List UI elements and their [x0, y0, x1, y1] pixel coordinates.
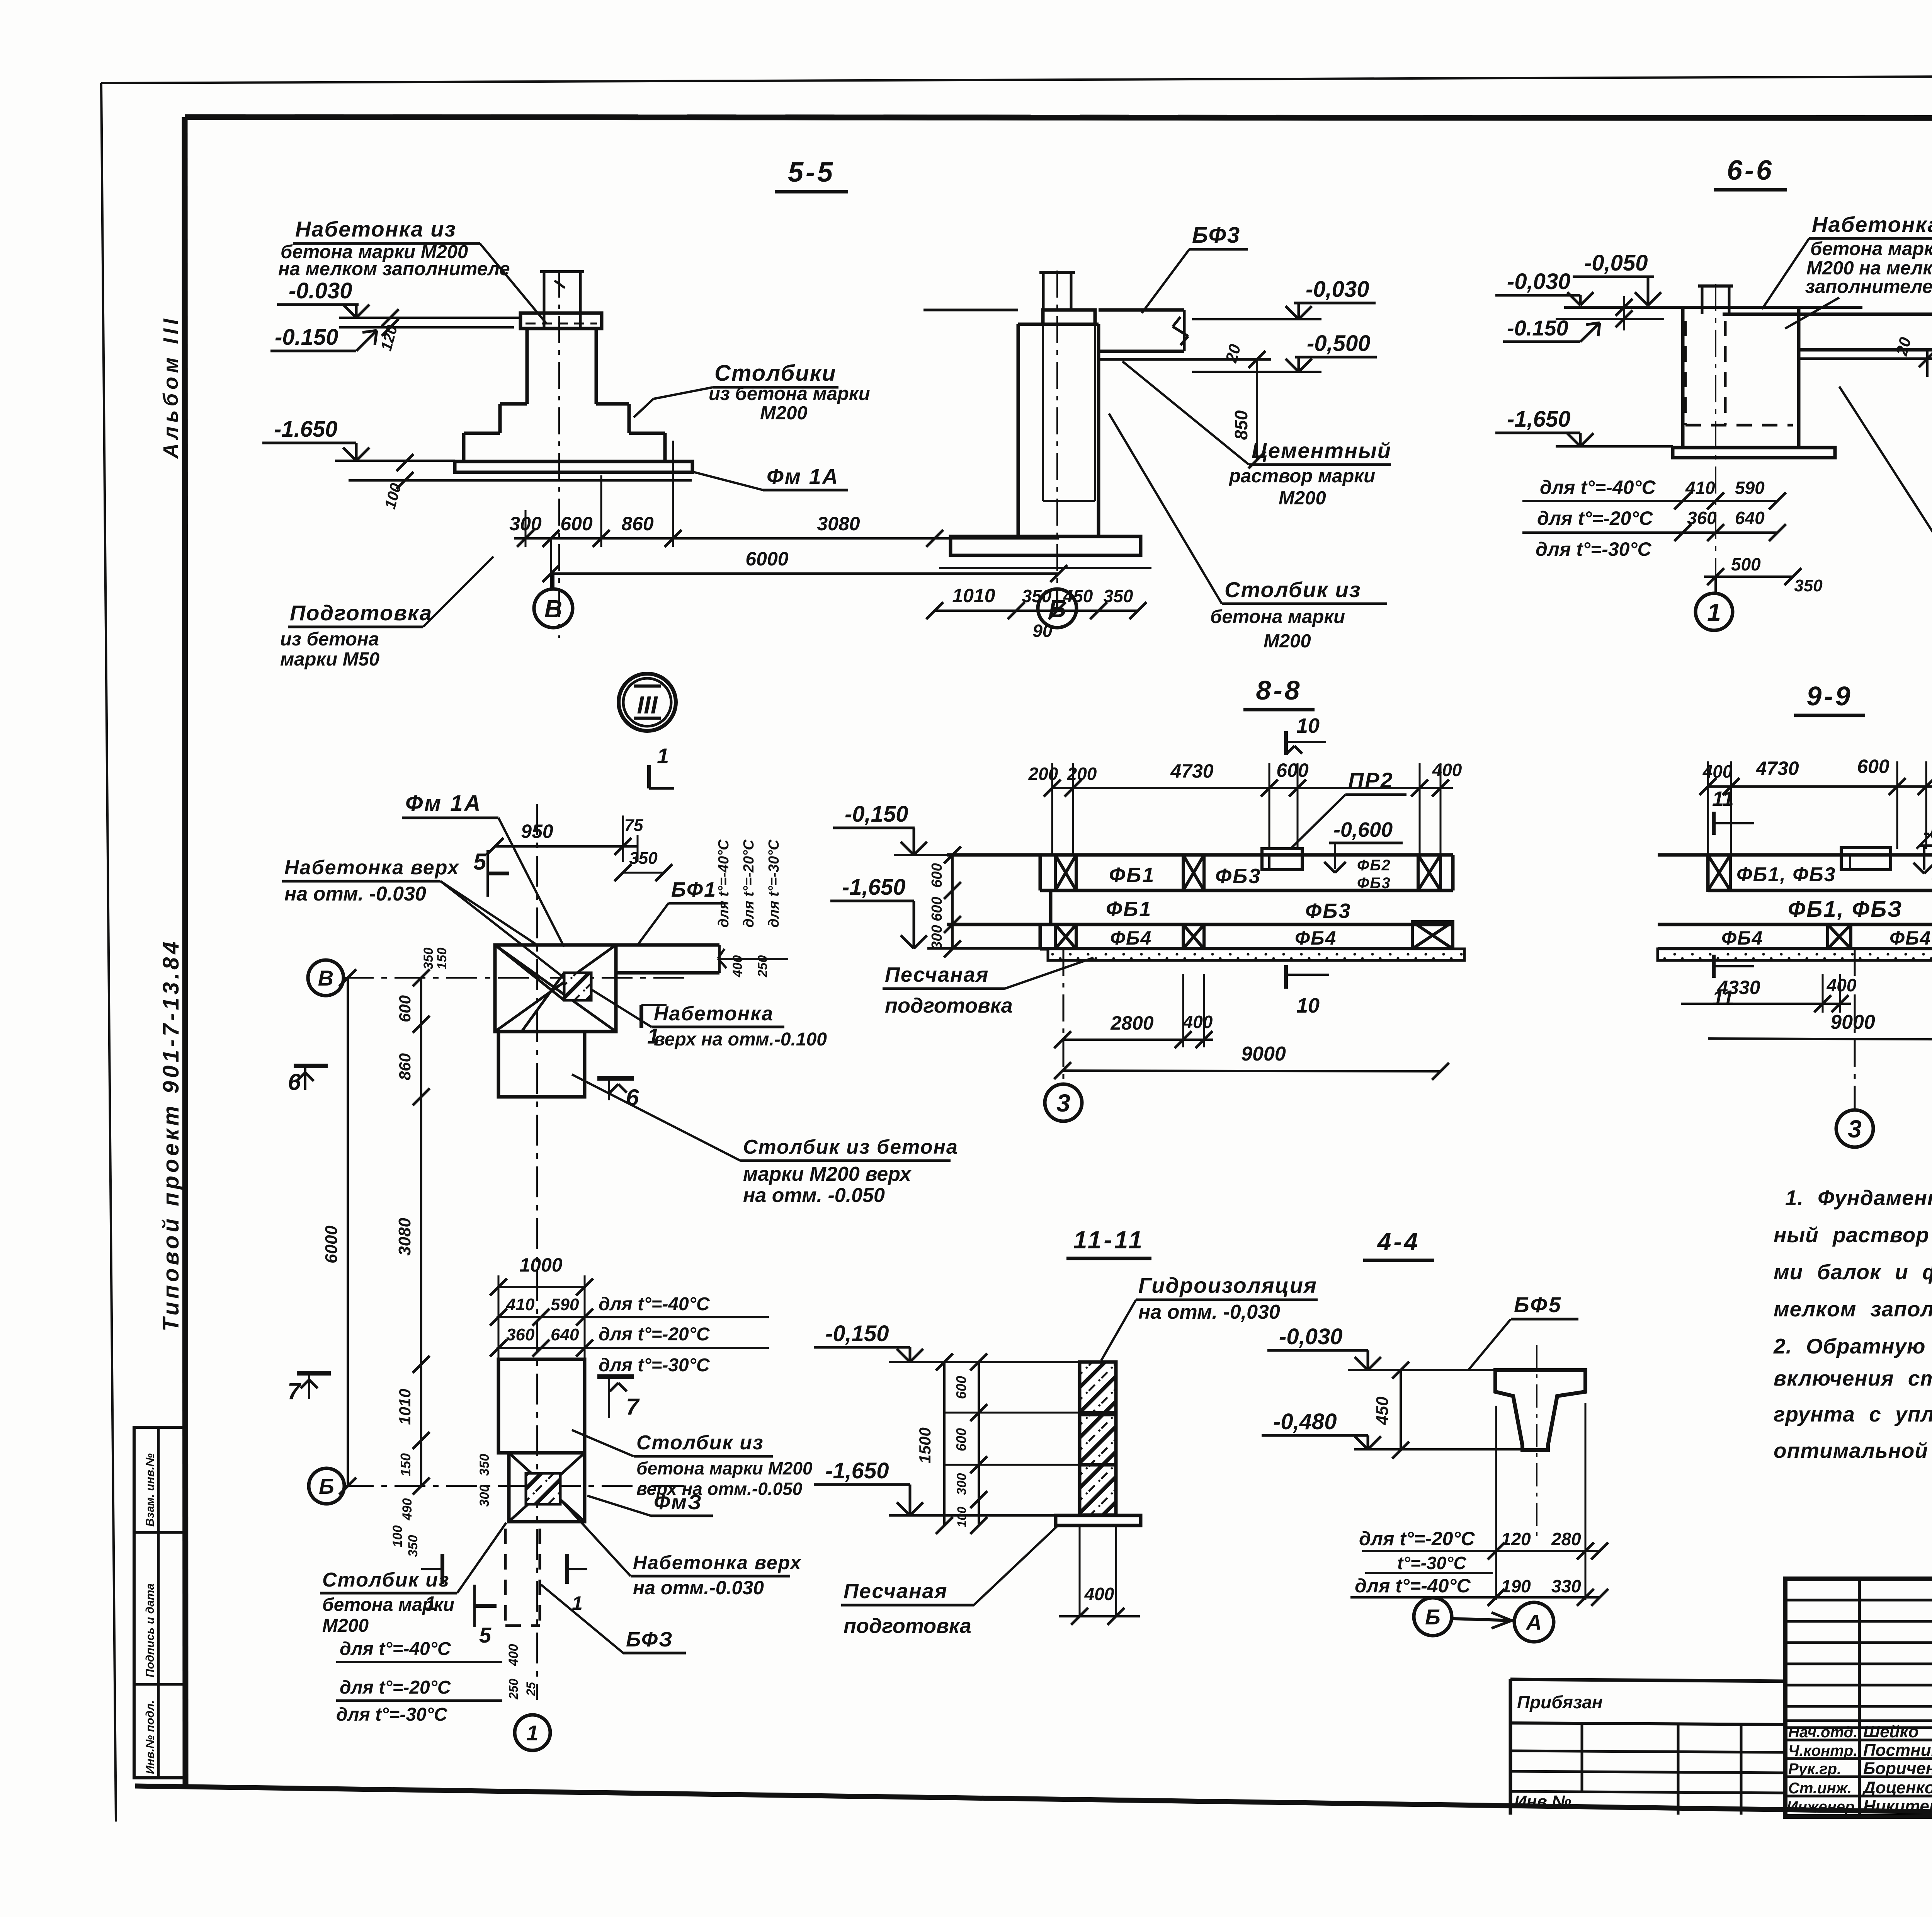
svg-text:Цементный: Цементный: [1252, 438, 1391, 463]
svg-text:ФБ3: ФБ3: [1357, 875, 1391, 892]
svg-text:Фм 1А: Фм 1А: [767, 464, 839, 489]
5-5 axis Б centerline: [1056, 271, 1058, 603]
label Фм 1А (plan): [402, 791, 564, 947]
svg-text:для t°=-40°C: для t°=-40°C: [716, 839, 732, 928]
svg-text:ФБ1, ФБЗ: ФБ1, ФБЗ: [1788, 897, 1903, 922]
svg-text:-0,030: -0,030: [1507, 269, 1570, 294]
title block signatures column: [1787, 1722, 1932, 1816]
svg-text:590: 590: [1735, 478, 1765, 498]
level -0.600 (9-9): [1913, 821, 1932, 873]
9-9 beam strip row 3: [1658, 924, 1932, 960]
svg-text:ФБ2: ФБ2: [1357, 857, 1391, 874]
svg-text:150: 150: [398, 1453, 413, 1476]
5-5 dimension 6000: [543, 538, 1067, 589]
svg-text:330: 330: [1551, 1576, 1581, 1596]
svg-text:Рук.гр.: Рук.гр.: [1788, 1760, 1841, 1777]
svg-text:600: 600: [396, 995, 414, 1022]
svg-text:В: В: [318, 966, 333, 990]
level -0.030 (5-5): [277, 278, 522, 318]
11-11 dim 400: [1059, 1584, 1140, 1625]
svg-text:Ч.контр.: Ч.контр.: [1788, 1742, 1857, 1759]
svg-text:ФБ1: ФБ1: [1106, 897, 1152, 921]
svg-text:А: А: [1526, 1610, 1542, 1634]
svg-text:1500: 1500: [916, 1427, 934, 1463]
svg-text:для t°=-40°C: для t°=-40°C: [599, 1294, 710, 1314]
svg-text:3: 3: [1848, 1115, 1862, 1143]
svg-text:600: 600: [560, 513, 593, 535]
section title 8-8: [1243, 675, 1315, 710]
plan: nabetonka hatched square (upper): [564, 973, 591, 1000]
section title 9-9: [1794, 681, 1865, 715]
svg-text:400: 400: [506, 1644, 521, 1667]
level -0.030 (4-4): [1267, 1324, 1495, 1370]
level -1.650 (6-6): [1495, 407, 1673, 446]
svg-text:t°=-30°C: t°=-30°C: [1397, 1553, 1466, 1573]
ПР2 box on strip (9-9): [1841, 848, 1891, 870]
svg-text:БФ3: БФ3: [1192, 223, 1241, 248]
6-6 column: [1683, 307, 1799, 448]
5-5 Б anchor bolts: [1039, 272, 1075, 310]
label БФЗ (plan): [541, 1585, 686, 1653]
svg-text:10: 10: [1296, 714, 1320, 737]
svg-text:400: 400: [1183, 1012, 1213, 1032]
label: Столбики из бетона марки М200 (5-5): [634, 361, 870, 424]
svg-text:подготовка: подготовка: [844, 1614, 971, 1638]
11-11 extension lines below: [1080, 1525, 1116, 1616]
9-9 beam strip row 1: [1658, 855, 1932, 890]
notes paragraph: [1773, 1186, 1932, 1462]
svg-text:Столбик из: Столбик из: [1225, 577, 1361, 602]
svg-text:250: 250: [507, 1679, 520, 1700]
svg-text:2800: 2800: [1110, 1012, 1153, 1034]
6-6 anchor bolts: [1698, 286, 1733, 314]
svg-text:для t°=-20°C: для t°=-20°C: [1537, 507, 1653, 529]
label: Столбик из бетона марки М200 (plan left): [320, 1523, 506, 1636]
svg-text:450: 450: [1063, 586, 1093, 606]
svg-text:верх на отм.-0.100: верх на отм.-0.100: [654, 1029, 827, 1050]
floor line left of Б column: [923, 309, 1018, 312]
svg-text:9-9: 9-9: [1806, 681, 1852, 711]
9-9 beam strip row 2: [1658, 897, 1932, 924]
5-5 anchor bolts: [540, 272, 584, 328]
section mark 7 left: [287, 1373, 331, 1404]
svg-text:ФБ3: ФБ3: [1215, 865, 1261, 888]
svg-text:300: 300: [954, 1473, 969, 1495]
8-8 sand base strip: [1048, 949, 1464, 960]
svg-text:на отм. -0.050: на отм. -0.050: [743, 1184, 885, 1207]
title block grid: [1785, 1579, 1932, 1817]
plan left dim chain (В to Б): [322, 948, 449, 1495]
svg-text:марки М200 верх: марки М200 верх: [743, 1163, 912, 1185]
label БФ1: [638, 878, 726, 945]
svg-text:-0.150: -0.150: [275, 325, 338, 350]
dim 100 rotated (5-5): [382, 454, 413, 511]
svg-text:Столбик из: Столбик из: [636, 1432, 764, 1454]
svg-text:300: 300: [929, 925, 945, 949]
ПР2 box on strip (8-8): [1262, 849, 1302, 870]
label: Песчаная подготовка (8-8): [883, 958, 1094, 1017]
svg-text:6: 6: [288, 1069, 301, 1095]
label БФ5: [1468, 1292, 1578, 1370]
11-11 wall hatched: [1080, 1362, 1116, 1515]
plan axis В line: [343, 977, 692, 979]
svg-text:1010: 1010: [952, 585, 995, 606]
svg-text:ФБ1: ФБ1: [1109, 863, 1155, 887]
axis circle 3 (8-8): [1045, 949, 1082, 1121]
svg-text:100: 100: [955, 1507, 969, 1527]
svg-text:1: 1: [526, 1721, 538, 1745]
svg-text:Набетонка из: Набетонка из: [1812, 212, 1932, 237]
svg-text:Б: Б: [1048, 595, 1066, 623]
svg-text:400: 400: [1084, 1584, 1114, 1604]
svg-text:Постников: Постников: [1863, 1741, 1932, 1760]
section marks 1 lower pair: [421, 1554, 587, 1614]
svg-text:бетона марки: бетона марки: [1810, 238, 1932, 259]
5-5 dimension chain 300/600/860/3080: [509, 441, 1059, 547]
svg-text:350: 350: [421, 948, 436, 970]
svg-text:-0,030: -0,030: [1306, 277, 1369, 302]
svg-text:200: 200: [1028, 764, 1058, 784]
dim 20 rotated (5-5 Б): [1222, 342, 1265, 368]
svg-text:БФ5: БФ5: [1514, 1292, 1562, 1317]
svg-text:Подготовка: Подготовка: [290, 601, 432, 625]
8-8 beam strip row 2: [947, 890, 1453, 924]
dim 20 rotated (6-6): [1892, 335, 1932, 377]
label ПР2 (8-8): [1291, 768, 1406, 849]
section title 5-5: [775, 157, 848, 192]
svg-text:М200: М200: [760, 403, 808, 424]
svg-text:для t°=-20°C: для t°=-20°C: [741, 839, 757, 928]
svg-text:Столбики: Столбики: [714, 361, 837, 386]
svg-text:9000: 9000: [1830, 1011, 1875, 1033]
8-8 bottom dims 2800/400: [1054, 974, 1213, 1048]
plan: lower column rect: [498, 1359, 585, 1453]
section mark 11 bottom (9-9): [1712, 955, 1754, 1010]
svg-text:для t°=-20°C: для t°=-20°C: [599, 1324, 710, 1345]
svg-text:ФмЗ: ФмЗ: [654, 1491, 702, 1514]
8-8 dim 9000: [1054, 1043, 1449, 1080]
svg-text:2. Обратную засыпку пазух п: 2. Обратную засыпку пазух производить гр…: [1773, 1334, 1932, 1358]
axis circle В (plan): [308, 960, 344, 996]
svg-text:М200: М200: [322, 1616, 369, 1636]
svg-text:1. Фундаментные балки уклады: 1. Фундаментные балки укладывать на цеме…: [1785, 1186, 1932, 1210]
level -1.650 (8-8): [830, 875, 1048, 948]
dim 120 ticks (6-6): [1616, 296, 1633, 330]
6-6 floor line: [1564, 306, 1862, 309]
label: Набетонка из бетона марки М200 на мелком заполнителе (6-6): [1762, 212, 1932, 329]
svg-text:для t°=-40°C: для t°=-40°C: [1540, 477, 1656, 498]
4-4 beam БФ5 cross-section: [1495, 1370, 1585, 1450]
svg-text:грунта с уплотнением слоями: грунта с уплотнением слоями не более 200…: [1774, 1402, 1932, 1426]
svg-text:150: 150: [435, 948, 449, 970]
svg-text:600: 600: [953, 1428, 969, 1451]
svg-text:90: 90: [1032, 621, 1053, 641]
svg-text:-0,480: -0,480: [1273, 1409, 1337, 1434]
section mark 11 top (9-9): [1712, 787, 1754, 835]
svg-text:ФБ1, ФБ3: ФБ1, ФБ3: [1736, 863, 1836, 886]
svg-text:Бориченко: Бориченко: [1863, 1759, 1932, 1778]
svg-text:на отм.-0.030: на отм.-0.030: [633, 1577, 764, 1599]
svg-text:оптимальной влажности до γс: оптимальной влажности до γск ≥ 1,65 т/м³…: [1774, 1439, 1932, 1462]
svg-text:350: 350: [406, 1535, 420, 1557]
svg-text:Б: Б: [319, 1474, 334, 1498]
svg-text:из бетона марки: из бетона марки: [709, 383, 870, 404]
svg-text:III: III: [637, 691, 658, 719]
label: Набетонка верх на отм.-0.030 (plan upper): [282, 856, 564, 978]
section mark 1 (lower near beam): [641, 1005, 667, 1048]
svg-text:4-4: 4-4: [1377, 1228, 1420, 1256]
level -1.650 (5-5): [262, 417, 455, 461]
level -0.500 (5-5 Б): [1192, 331, 1377, 372]
svg-text:М200: М200: [1264, 631, 1311, 652]
svg-text:1: 1: [657, 744, 669, 768]
svg-text:-1,650: -1,650: [825, 1458, 889, 1483]
svg-text:для t°=-40°C: для t°=-40°C: [340, 1639, 451, 1659]
axis circle 1 (6-6): [1696, 577, 1733, 630]
section mark 1 (upper): [649, 744, 674, 788]
svg-text:ФБ3: ФБ3: [1305, 899, 1351, 923]
svg-text:100: 100: [390, 1525, 405, 1548]
svg-text:850: 850: [1231, 410, 1251, 440]
section title 11-11: [1066, 1226, 1151, 1258]
axis circle Б (plan): [309, 1468, 344, 1504]
level -0.150 (6-6): [1503, 316, 1664, 342]
svg-text:ми балок и фундаментом зад: ми балок и фундаментом заделать бетоном …: [1774, 1260, 1932, 1284]
svg-text:300: 300: [477, 1485, 492, 1507]
level -0.050 (6-6): [1573, 250, 1661, 305]
svg-text:Взам. инв.№: Взам. инв.№: [144, 1453, 156, 1527]
label: Песчаная подготовка (11-11): [841, 1525, 1059, 1638]
svg-text:360: 360: [506, 1325, 535, 1344]
svg-text:из бетона: из бетона: [280, 629, 379, 650]
svg-text:950: 950: [521, 821, 553, 842]
svg-text:-1.650: -1.650: [274, 417, 337, 442]
svg-text:11: 11: [1712, 787, 1734, 810]
svg-text:-0.030: -0.030: [289, 278, 352, 303]
svg-text:200: 200: [1067, 764, 1097, 784]
section mark 6 right: [597, 1078, 639, 1110]
plan axis Б line: [343, 1485, 692, 1487]
dim 1000 (plan lower): [490, 1254, 593, 1359]
plan axis 1 vertical line: [536, 804, 538, 1699]
svg-text:Типовой проект 901-7-13.84: Типовой проект 901-7-13.84: [158, 939, 184, 1332]
svg-text:640: 640: [1735, 508, 1765, 528]
label Фм3 (plan): [587, 1491, 713, 1516]
svg-text:350: 350: [1022, 586, 1052, 606]
4-4 centerline: [1536, 1345, 1537, 1542]
svg-text:9000: 9000: [1241, 1043, 1286, 1065]
svg-text:ный раствор М200 толщиной: ный раствор М200 толщиной 20мм. Зазоры м…: [1774, 1223, 1932, 1247]
svg-text:490: 490: [400, 1498, 415, 1521]
svg-text:Никитенко: Никитенко: [1863, 1797, 1932, 1816]
svg-text:ФБ4: ФБ4: [1110, 927, 1152, 949]
svg-text:400: 400: [1432, 760, 1462, 780]
section mark 5 (upper): [473, 849, 509, 897]
svg-text:600: 600: [929, 863, 945, 887]
svg-text:-1,650: -1,650: [1507, 407, 1570, 432]
svg-text:М200 на мелком: М200 на мелком: [1806, 258, 1932, 279]
svg-text:Доценко: Доценко: [1862, 1778, 1932, 1797]
svg-text:ФБ4: ФБ4: [1295, 927, 1337, 949]
svg-text:Столбик из: Столбик из: [322, 1569, 450, 1591]
svg-text:Гидроизоляция: Гидроизоляция: [1138, 1273, 1317, 1297]
secondary attachment table (Прибязан): [1510, 1679, 1785, 1815]
svg-text:Фм 1А: Фм 1А: [405, 791, 482, 816]
svg-text:5: 5: [479, 1623, 492, 1647]
dim 450 vertical (4-4): [1373, 1362, 1409, 1459]
section mark 7 right: [597, 1377, 640, 1420]
svg-text:7: 7: [287, 1378, 301, 1404]
axis circle Б (5-5): [1038, 589, 1077, 628]
label: Столбик из бетона марки М200 (6-6): [1839, 386, 1932, 617]
svg-text:ПР2: ПР2: [1348, 768, 1394, 792]
svg-text:бетона марки М200: бетона марки М200: [636, 1458, 813, 1478]
svg-text:5-5: 5-5: [788, 157, 835, 188]
svg-text:350: 350: [1794, 576, 1823, 595]
plan: column below upper footing: [498, 1032, 585, 1097]
label: Гидроизоляция на отм.-0.030: [1101, 1273, 1318, 1360]
svg-text:Набетонка из: Набетонка из: [295, 217, 456, 241]
svg-text:Песчаная: Песчаная: [844, 1580, 947, 1603]
axis circle 1 (plan): [515, 1699, 550, 1750]
svg-text:190: 190: [1501, 1576, 1531, 1596]
svg-text:10: 10: [1296, 994, 1320, 1017]
svg-text:Инженер: Инженер: [1787, 1798, 1854, 1815]
svg-text:для t°=-30°C: для t°=-30°C: [1536, 538, 1651, 560]
5-5 axis B footing: stepped column outline: [464, 313, 665, 461]
svg-text:1: 1: [425, 1592, 436, 1614]
svg-text:25: 25: [524, 1682, 538, 1696]
5-5 beam БФ3 right of column: [1099, 310, 1271, 359]
svg-text:-0,030: -0,030: [1279, 1324, 1342, 1349]
svg-text:подготовка: подготовка: [885, 994, 1013, 1017]
6-6 t° dim table left: [1522, 477, 1823, 595]
svg-text:БФ1: БФ1: [671, 878, 717, 901]
svg-text:3080: 3080: [395, 1218, 414, 1256]
plan: lower footing Фм3 outline: [509, 1453, 585, 1522]
8-8 top dimension chain: [1028, 759, 1462, 855]
11-11 base slab: [1056, 1515, 1141, 1525]
svg-text:120: 120: [1501, 1529, 1531, 1549]
svg-text:350: 350: [1104, 586, 1133, 606]
svg-text:6000: 6000: [322, 1226, 341, 1263]
label: Столбик из бетона марки М200 (5-5 Б): [1109, 414, 1387, 652]
svg-text:860: 860: [621, 513, 654, 535]
svg-text:4730: 4730: [1170, 760, 1213, 782]
9-9 sand base strip: [1658, 949, 1932, 960]
9-9 top dimension chain: [1699, 756, 1932, 855]
8-8 beam strip row 3 ФБ4: [1040, 922, 1453, 949]
plan: Фм3 hatched square: [526, 1473, 560, 1504]
svg-text:Набетонка верх: Набетонка верх: [633, 1552, 802, 1573]
svg-text:включения строительного мусо: включения строительного мусора. и растит…: [1774, 1366, 1932, 1390]
svg-text:заполнителе: заполнителе: [1805, 276, 1932, 297]
svg-text:Столбик из бетона: Столбик из бетона: [743, 1136, 958, 1158]
svg-text:1: 1: [1707, 598, 1721, 626]
level -0.030 (5-5 Б): [1192, 277, 1376, 319]
svg-text:-0,600: -0,600: [1923, 821, 1932, 844]
plan lower t° table: [490, 1294, 769, 1376]
4-4 dim extension lines: [1496, 1403, 1585, 1600]
node III circle symbol: [619, 674, 676, 731]
svg-text:6-6: 6-6: [1727, 155, 1774, 186]
svg-text:410: 410: [506, 1295, 535, 1314]
9-9 bottom dims 4330/400/400: [1681, 974, 1932, 1044]
level -0.480 (4-4): [1262, 1409, 1522, 1449]
svg-text:11-11: 11-11: [1073, 1226, 1145, 1254]
label: Столбик из бетона марки М200 верх на отм.-0.050 (upper): [572, 1074, 958, 1207]
label Фм-1А (5-5): [692, 464, 848, 490]
svg-text:-0,150: -0,150: [845, 802, 908, 827]
left margin text: Типовой проект 901-7-13.84: [158, 939, 184, 1332]
4-4 t° dim table: [1350, 1528, 1608, 1606]
plan: upper footing Фм1А square with X: [495, 945, 616, 1032]
dim 120 rotated (5-5): [378, 309, 401, 353]
svg-text:на мелком заполнителе: на мелком заполнителе: [278, 259, 510, 279]
svg-text:Прибязан: Прибязан: [1517, 1692, 1603, 1712]
svg-text:4330: 4330: [1717, 977, 1760, 998]
label: Набетонка верх на отм.-0.030 (lower): [560, 1500, 802, 1599]
level -0.600 (8-8): [1324, 818, 1403, 873]
svg-text:для t°=-20°C: для t°=-20°C: [340, 1677, 451, 1698]
9-9 dim 9000: [1708, 1011, 1932, 1048]
svg-text:бетона марки: бетона марки: [1210, 606, 1345, 627]
6-6 beam right: [1799, 314, 1932, 359]
level -0.150 (8-8): [833, 802, 1040, 855]
rotated t° labels near beam end (plan): [716, 839, 782, 978]
level -1.650 (11-11): [814, 1458, 1056, 1515]
level -0.150 (11-11): [814, 1321, 1080, 1362]
dim 950 (plan): [486, 815, 643, 862]
svg-text:марки М50: марки М50: [280, 649, 379, 670]
5-5 axis B column centerline: [558, 271, 560, 638]
svg-text:7: 7: [626, 1394, 640, 1420]
svg-text:600: 600: [929, 897, 945, 921]
section mark 10 bottom (8-8): [1286, 965, 1329, 1017]
svg-text:ФБ4: ФБ4: [1721, 927, 1763, 949]
dim 850 rotated vertical (5-5 Б): [1231, 359, 1265, 468]
svg-text:450: 450: [1373, 1396, 1392, 1425]
section mark 6 left: [288, 1066, 328, 1095]
svg-text:раствор марки: раствор марки: [1228, 466, 1375, 487]
svg-text:3: 3: [1056, 1089, 1070, 1117]
svg-text:для t°=-30°C: для t°=-30°C: [336, 1704, 448, 1725]
8-8 left rotated dims 600/600/300: [929, 846, 961, 957]
svg-text:1000: 1000: [519, 1254, 562, 1276]
plan bottom t° table: [336, 1639, 538, 1725]
svg-text:6000: 6000: [745, 548, 788, 570]
svg-text:Песчаная: Песчаная: [885, 963, 989, 986]
section mark 10 top (8-8): [1286, 714, 1326, 755]
svg-text:400: 400: [730, 955, 745, 978]
svg-text:Б: Б: [1425, 1605, 1440, 1629]
svg-text:75: 75: [624, 816, 643, 835]
6-6 base slab: [1673, 448, 1835, 458]
plan: beam БФ3 dashed below: [505, 1529, 540, 1626]
svg-text:350: 350: [629, 849, 658, 868]
svg-text:Набетонка: Набетонка: [654, 1003, 774, 1025]
svg-text:ФБ4: ФБ4: [1889, 927, 1931, 949]
svg-text:Ст.инж.: Ст.инж.: [1788, 1780, 1852, 1797]
section mark 5 lower: [474, 1585, 497, 1647]
5-5 axis B footing: base slab Fm1A: [349, 461, 692, 480]
5-5 Б dimension chain 1010/350/450/350: [926, 585, 1146, 641]
svg-text:на отм. -0,030: на отм. -0,030: [1138, 1301, 1280, 1323]
axis circles Б-А (4-4): [1414, 1598, 1554, 1642]
svg-text:4730: 4730: [1755, 758, 1799, 779]
label БФ3 (5-5): [1142, 223, 1248, 313]
label ПР2 (9-9): [1917, 772, 1932, 849]
